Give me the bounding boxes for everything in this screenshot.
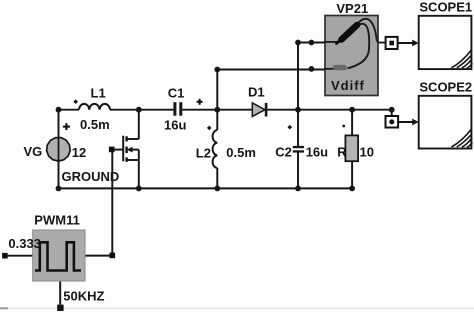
svg-text:L1: L1: [91, 86, 106, 101]
svg-text:0.5m: 0.5m: [226, 145, 256, 160]
svg-text:50KHZ: 50KHZ: [63, 289, 104, 304]
svg-text:Vdiff: Vdiff: [331, 78, 365, 93]
svg-text:10: 10: [360, 145, 374, 160]
svg-text:VG: VG: [24, 144, 43, 159]
svg-text:D1: D1: [248, 85, 265, 100]
svg-text:16u: 16u: [306, 145, 328, 160]
svg-text:GROUND: GROUND: [62, 169, 120, 184]
svg-text:SCOPE2: SCOPE2: [419, 80, 472, 95]
svg-text:R: R: [337, 145, 347, 160]
svg-text:0.5m: 0.5m: [80, 117, 110, 132]
svg-text:C1: C1: [168, 86, 185, 101]
svg-text:C2: C2: [275, 145, 292, 160]
svg-text:16u: 16u: [164, 118, 186, 133]
svg-text:VP21: VP21: [336, 1, 368, 16]
svg-text:SCOPE1: SCOPE1: [419, 0, 472, 15]
svg-text:PWM11: PWM11: [34, 213, 80, 228]
svg-text:0.333: 0.333: [8, 236, 41, 251]
svg-text:L2: L2: [196, 146, 211, 161]
svg-text:12: 12: [72, 145, 86, 160]
